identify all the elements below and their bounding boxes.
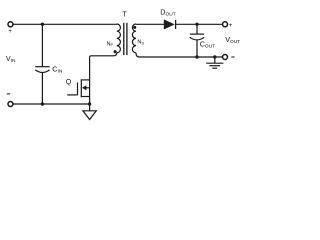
svg-text:NS: NS (137, 40, 144, 46)
junction: Q source / ground node (88, 102, 91, 105)
capacitor CIN (input bulk cap) (35, 67, 49, 73)
wire secondary bottom rail (136, 53, 223, 57)
terminal VOUT- (223, 55, 228, 60)
wire bottom rail input (13, 103, 91, 105)
ground (secondary-side earth symbol) (206, 57, 223, 68)
minus sign bottom left (7, 93, 10, 95)
wire secondary top to diode (136, 23, 164, 25)
diode DOUT (output rectifier) (164, 20, 176, 29)
polarity dot secondary NS (133, 26, 136, 29)
transformer T secondary winding NS (132, 24, 136, 53)
drain stub (81, 79, 89, 81)
gate lead wire (67, 94, 77, 96)
svg-text:T: T (122, 11, 127, 18)
transformer T primary winding NP (117, 24, 121, 53)
svg-text:NP: NP (107, 41, 114, 47)
capacitor COUT (output cap) (190, 34, 204, 40)
junction: CIN top node (41, 23, 44, 26)
wire top rail input (13, 23, 117, 25)
wire Cin branch bottom (41, 73, 43, 105)
svg-text:Q: Q (66, 79, 72, 86)
minus sign bottom right (231, 56, 234, 58)
terminal VIN- (8, 102, 13, 107)
terminal VOUT+ (223, 22, 228, 27)
junction: CIN bottom node (41, 102, 44, 105)
svg-text:+: + (8, 28, 12, 35)
wire Cin branch top (41, 24, 43, 66)
mosfet body arrow (82, 85, 86, 90)
transformer core (124, 23, 127, 55)
svg-text:+: + (229, 22, 233, 29)
junction: output ground node (213, 55, 216, 58)
body stub (85, 87, 90, 89)
channel bar (80, 79, 82, 97)
transistor Q (N-channel MOSFET switch) (67, 79, 89, 97)
source stub (81, 96, 89, 98)
wire diode to + terminal (176, 23, 223, 25)
junction: COUT bottom node (195, 55, 198, 58)
wire Cout branch bottom (196, 40, 198, 57)
ground (primary-side triangle symbol) (83, 104, 96, 120)
wire Cout branch top (196, 24, 198, 34)
junction: COUT top node (195, 23, 198, 26)
polarity dot primary NP (114, 50, 117, 53)
wire primary bottom to drain (90, 53, 117, 104)
gate bar (77, 83, 79, 96)
terminal VIN+ (8, 22, 13, 27)
